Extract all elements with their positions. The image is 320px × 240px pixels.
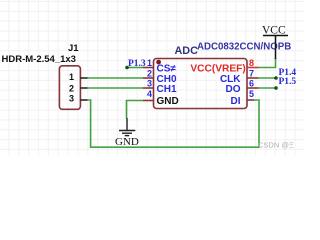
svg-text:DI: DI [231,96,241,107]
svg-text:DO: DO [226,84,241,95]
node: P1.3 wire end dot [125,66,129,70]
svg-text:CS≠: CS≠ [157,64,177,75]
wire: net P1.3 stub wire to U1 pin 1 [127,67,143,69]
svg-text:HDR-M-2.54_1x3: HDR-M-2.54_1x3 [2,54,76,65]
pin 8 stub VCC red [247,67,259,69]
node: P1.4 wire end dot [274,76,278,80]
svg-text:8: 8 [249,58,254,68]
pin 3 of J1 [80,99,87,101]
svg-text:GND: GND [115,136,139,148]
svg-text:7: 7 [249,69,254,79]
op IC U? ADC0832 body [154,59,248,109]
pin 2 stub CH0 [143,77,154,79]
pin 1 of J1 [80,77,87,79]
wire: U1 DO pin6 to P1.5 [259,87,277,89]
svg-text:P1.5: P1.5 [279,77,297,87]
svg-text:VCC: VCC [262,24,286,36]
svg-text:2: 2 [147,69,152,79]
wire: J1 pin1 to U1 CH0 [88,77,144,79]
connector J1 body [59,66,80,110]
pin 5 stub DI [247,99,254,101]
pin 7 stub CLK [247,77,259,79]
svg-text:ADC: ADC [175,45,199,57]
svg-text:J1: J1 [68,43,79,54]
svg-text:1: 1 [147,58,152,68]
ground symbol [119,118,135,136]
svg-text:CSDN @Ξ: CSDN @Ξ [258,141,294,150]
wire: J1 pin2 to U1 CH1 [88,87,144,89]
svg-text:4: 4 [147,89,152,99]
pin 4 stub GND [143,100,154,102]
node: P1.5 wire end dot [274,86,278,90]
svg-text:3: 3 [69,94,74,104]
svg-text:CH1: CH1 [157,84,177,95]
svg-text:5: 5 [249,89,254,99]
svg-text:3: 3 [147,79,152,89]
pin 6 stub DO [247,87,259,89]
pin 3 stub CH1 [143,87,154,89]
svg-text:VCC(VREF): VCC(VREF) [190,64,245,75]
svg-text:6: 6 [249,79,254,89]
svg-text:1: 1 [69,72,74,82]
pin1 marker dot [156,60,161,65]
pin 2 of J1 [80,87,87,89]
wire: J1 pin3 down, along bottom, up to U1 DI pin5 [88,100,260,147]
svg-text:2: 2 [69,84,74,94]
wire: U1 GND pin4 to ground [127,101,144,119]
svg-text:GND: GND [157,96,179,107]
wire: VCC to U1 pin8 [259,58,276,68]
svg-text:P1.3: P1.3 [128,59,146,69]
wire: U1 CLK pin7 to P1.4 [259,77,277,79]
power port VCC [262,24,288,59]
svg-text:ADC0832CCN/NOPB: ADC0832CCN/NOPB [197,42,291,53]
pin 1 stub CS [143,67,154,69]
